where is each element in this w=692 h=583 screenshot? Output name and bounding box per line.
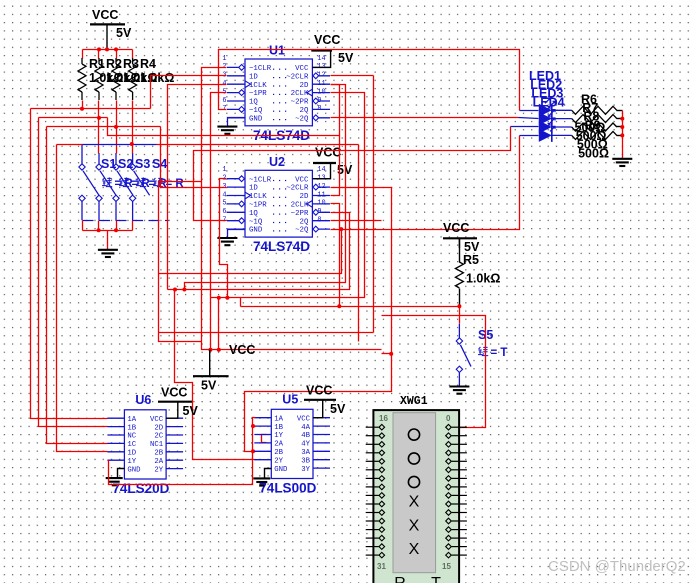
wire net D4 down to rail L1 <box>358 145 360 342</box>
junction <box>217 296 221 300</box>
svg-text:0: 0 <box>446 414 451 423</box>
power VCC symbol mid 5V (inverted) <box>193 343 255 393</box>
svg-text:1A: 1A <box>127 416 136 424</box>
wire <box>132 101 134 145</box>
wire net R down to VCC rail <box>202 342 382 350</box>
svg-text:5V: 5V <box>338 51 354 65</box>
svg-text:74LS74D: 74LS74D <box>253 239 310 254</box>
svg-text:R3: R3 <box>123 57 139 71</box>
switch S3 <box>113 153 133 220</box>
IC U2 pins and labels <box>227 178 245 180</box>
wire net D1 horizontal <box>31 108 151 110</box>
svg-text:~1CLR: ~1CLR <box>249 65 272 73</box>
wire U2 pin10 2CLK down to T rail <box>331 204 340 307</box>
svg-text:U1: U1 <box>269 44 285 58</box>
svg-text:5V: 5V <box>116 26 132 40</box>
svg-text:1D: 1D <box>249 73 258 81</box>
svg-text:1CLK: 1CLK <box>249 82 267 90</box>
svg-text:31: 31 <box>377 562 386 571</box>
svg-text:1Q: 1Q <box>249 210 258 218</box>
svg-text:3Y: 3Y <box>301 466 310 474</box>
svg-text:R1: R1 <box>89 57 105 71</box>
wire U1 pin1 ~1CLR net R <box>202 68 227 342</box>
svg-text:3A: 3A <box>301 449 310 457</box>
LED LED4 <box>539 123 572 142</box>
svg-text:~2Q: ~2Q <box>295 115 309 123</box>
wire net D3 horizontal <box>47 126 161 128</box>
svg-text:= R: = R <box>166 178 185 190</box>
wire down to U5 pin 2Y <box>175 290 256 460</box>
junction <box>173 288 177 292</box>
junction <box>182 288 186 292</box>
svg-text:11: 11 <box>317 80 325 88</box>
svg-text:1Y: 1Y <box>127 458 136 466</box>
svg-text:= T: = T <box>491 347 508 359</box>
wire net D2 jog right <box>108 118 340 136</box>
svg-text:~1CLR: ~1CLR <box>249 176 272 184</box>
svg-text:GND: GND <box>249 115 263 123</box>
svg-text:S3: S3 <box>135 157 150 171</box>
LED LED2 <box>539 107 572 126</box>
switch S5 <box>456 324 471 387</box>
svg-text:~2PR: ~2PR <box>291 210 309 218</box>
wire junction down to VCC rail <box>218 298 220 350</box>
wire U1 GND to ground <box>228 118 245 127</box>
resistor R8 500Ω <box>572 123 617 131</box>
svg-text:6: 6 <box>222 97 226 105</box>
wire <box>132 50 134 59</box>
svg-text:2C: 2C <box>154 433 163 441</box>
svg-text:R9: R9 <box>585 118 601 132</box>
wire LED3 anode blue <box>511 126 539 128</box>
svg-text:~2CLR: ~2CLR <box>286 185 309 193</box>
wire U1 pin12 2D to U2 pin11 2D <box>331 85 340 196</box>
wire <box>82 101 84 109</box>
wire long horizontal y332 <box>159 332 374 334</box>
wire rail y273 up to LED4 line <box>159 230 342 274</box>
svg-text:NC1: NC1 <box>150 441 164 449</box>
junction <box>114 228 118 232</box>
svg-text:GND: GND <box>127 466 141 474</box>
junction T rail <box>337 304 341 308</box>
wire net D3 to U6 pin 1C <box>47 127 108 444</box>
svg-text:X: X <box>409 541 420 558</box>
wire net D4 to U6 pin 1D <box>57 145 108 452</box>
junction <box>620 125 624 129</box>
svg-text:2CLK: 2CLK <box>291 202 309 210</box>
svg-text:1Y: 1Y <box>274 432 283 440</box>
svg-text:VCC: VCC <box>295 176 309 184</box>
svg-text:2B: 2B <box>154 450 163 458</box>
svg-text:2B: 2B <box>274 449 283 457</box>
junction R4/S4 <box>130 142 134 146</box>
power VCC symbol top-left 5V <box>90 8 132 49</box>
wire U1 ~1Q to LED1 <box>219 50 520 111</box>
svg-text:10: 10 <box>317 200 325 208</box>
svg-text:5V: 5V <box>201 379 217 393</box>
IC U5 pins and labels <box>254 417 271 419</box>
svg-text:9: 9 <box>317 208 321 216</box>
svg-text:2CLK: 2CLK <box>291 90 309 98</box>
wire U2 pin13 ~2CLR down to U5 pin 2B <box>245 188 392 452</box>
wire <box>617 126 623 128</box>
label S5 key = T <box>478 346 507 359</box>
junction <box>217 348 221 352</box>
ground U6 <box>106 478 123 485</box>
svg-text:2A: 2A <box>274 441 283 449</box>
svg-text:S4: S4 <box>152 157 167 171</box>
power VCC symbol R5 5V <box>443 221 480 254</box>
wire U5 1Y to 2A bracket <box>262 435 267 443</box>
svg-text:11: 11 <box>317 191 325 199</box>
wire T rail riser <box>240 298 242 307</box>
svg-text:15: 15 <box>442 562 451 571</box>
svg-text:R5: R5 <box>463 253 479 267</box>
svg-text:S1: S1 <box>101 157 116 171</box>
svg-text:R: R <box>394 575 406 583</box>
wire U2 GND to ground <box>228 230 245 239</box>
svg-text:~2CLR: ~2CLR <box>286 73 309 81</box>
wire U2 ~1Q to LED3 <box>194 127 511 221</box>
ground S5 <box>449 387 469 394</box>
junction <box>97 47 101 51</box>
wire resistor top bus <box>83 49 133 51</box>
svg-text:500Ω: 500Ω <box>578 146 609 160</box>
svg-text:R2: R2 <box>106 57 122 71</box>
resistor R2 1.0kΩ <box>95 64 103 92</box>
wire LED1 anode blue <box>520 110 539 112</box>
label S4 key = R <box>153 177 184 190</box>
IC U2 74LS74D body <box>245 170 312 237</box>
svg-text:VCC: VCC <box>150 416 164 424</box>
resistor R6 500Ω <box>572 106 617 114</box>
wire S3 feed <box>116 127 118 154</box>
junction <box>114 47 118 51</box>
switch S1 <box>79 144 99 220</box>
wire U1 pin11 2CLK down-around <box>185 85 346 290</box>
svg-text:5V: 5V <box>183 404 199 418</box>
svg-text:1A: 1A <box>274 415 283 423</box>
junction R2/S2 <box>97 116 101 120</box>
svg-text:5V: 5V <box>330 402 346 416</box>
instrument XWG1 pins <box>366 424 467 558</box>
IC U5 74LS00D body <box>271 409 313 478</box>
LED LED3 <box>539 115 572 134</box>
svg-text:4B: 4B <box>301 432 310 440</box>
svg-text:2Y: 2Y <box>274 457 283 465</box>
svg-text:12: 12 <box>317 183 325 191</box>
wire U1 pin4 ~1PR down to VCC rail <box>211 93 227 350</box>
junction <box>225 296 229 300</box>
wire rail jog join <box>382 353 392 355</box>
svg-text:X: X <box>409 494 420 511</box>
label S1 key = R <box>102 177 133 190</box>
svg-text:4: 4 <box>222 191 226 199</box>
wire rail to R5/S5 node T <box>241 306 460 308</box>
junction <box>97 228 101 232</box>
svg-text:8: 8 <box>317 217 321 225</box>
ground U2 <box>217 238 237 245</box>
svg-text:2Q: 2Q <box>300 107 309 115</box>
svg-text:U5: U5 <box>282 392 298 406</box>
svg-text:VCC: VCC <box>229 343 255 357</box>
power VCC symbol U1 5V <box>311 33 354 67</box>
svg-text:U6: U6 <box>135 393 151 407</box>
svg-text:NC: NC <box>127 433 136 441</box>
wire U5 1B <box>253 426 256 428</box>
junction node T <box>457 304 461 308</box>
svg-text:6: 6 <box>222 208 226 216</box>
svg-text:9: 9 <box>317 97 321 105</box>
wire <box>82 221 84 231</box>
svg-text:1D: 1D <box>249 185 258 193</box>
svg-text:74LS00D: 74LS00D <box>259 481 316 496</box>
resistor R3 1.0kΩ <box>112 64 120 92</box>
svg-text:LED4: LED4 <box>533 95 565 109</box>
wire net D4 horizontal left <box>57 144 83 146</box>
svg-text:VCC: VCC <box>161 386 187 400</box>
svg-text:GND: GND <box>249 227 263 235</box>
wire net D4 horizontal right <box>157 144 359 146</box>
svg-text:1Q: 1Q <box>249 99 258 107</box>
svg-text:10: 10 <box>317 88 325 96</box>
svg-text:2D: 2D <box>154 424 163 432</box>
junction <box>389 352 393 356</box>
wire <box>617 118 623 120</box>
power VCC symbol U6 5V <box>158 386 198 419</box>
wire U1 ~2Q to LED2 <box>331 117 519 119</box>
svg-text:1.0kΩ: 1.0kΩ <box>140 71 174 85</box>
junction R1/S1 <box>80 107 84 111</box>
wire <box>98 101 100 118</box>
svg-text:5V: 5V <box>464 240 480 254</box>
svg-text:~1Q: ~1Q <box>249 107 263 115</box>
wire LED2 anode blue <box>519 118 539 119</box>
svg-text:1CLK: 1CLK <box>249 193 267 201</box>
svg-text:~1Q: ~1Q <box>249 218 263 226</box>
svg-text:~2Q: ~2Q <box>295 227 309 235</box>
wire <box>116 101 118 127</box>
svg-text:1.0kΩ: 1.0kΩ <box>466 272 500 286</box>
svg-text:74LS20D: 74LS20D <box>112 481 169 496</box>
svg-text:VCC: VCC <box>443 221 469 235</box>
svg-text:XWG1: XWG1 <box>400 395 428 408</box>
resistor R7 500Ω <box>572 115 617 123</box>
wire <box>617 135 623 137</box>
wire clock rail to U2 ~2PR <box>168 213 350 290</box>
wire R5 lead <box>459 289 461 307</box>
IC U1 pins and labels <box>227 66 245 68</box>
resistor R4 1.0kΩ <box>129 64 137 92</box>
svg-text:4A: 4A <box>301 424 310 432</box>
wire U6 GND <box>118 469 125 479</box>
wire U1 pin13 ~2CLR right <box>331 75 374 77</box>
svg-text:1: 1 <box>222 55 226 63</box>
wire <box>116 50 118 59</box>
svg-text:1D: 1D <box>127 450 136 458</box>
ground U1 <box>217 127 237 134</box>
junction R3/S3 <box>114 125 118 129</box>
svg-text:14: 14 <box>317 55 325 63</box>
wire <box>617 110 623 112</box>
label S2 key = R <box>119 177 150 190</box>
wire U1 pin3 1CLK down <box>168 85 227 290</box>
wire <box>116 221 118 231</box>
junction U5 1B branch <box>251 424 255 428</box>
svg-text:~1PR: ~1PR <box>249 202 267 210</box>
svg-text:X: X <box>409 517 420 534</box>
junction <box>105 47 109 51</box>
junction VCC stem <box>208 348 212 352</box>
wire node T down <box>459 307 461 324</box>
svg-text:3B: 3B <box>301 457 310 465</box>
svg-text:VCC: VCC <box>314 33 340 47</box>
wire net D2 to U6 pin 1B <box>39 118 108 427</box>
power VCC symbol U2 5V <box>313 146 353 179</box>
ground R6-R9 <box>612 159 632 166</box>
wire <box>98 221 100 231</box>
wire long vertical x374 <box>373 76 375 333</box>
svg-text:1: 1 <box>222 166 226 174</box>
junction LED4 line <box>339 227 343 231</box>
wire <box>132 221 134 231</box>
svg-text:1B: 1B <box>127 424 136 432</box>
instrument XWG1 inner panel <box>393 413 436 573</box>
svg-text:14: 14 <box>317 166 325 174</box>
svg-text:~1PR: ~1PR <box>249 90 267 98</box>
svg-text:1B: 1B <box>274 424 283 432</box>
ground switches S1-S4 <box>98 250 118 257</box>
wire <box>108 460 109 462</box>
svg-text:12: 12 <box>317 72 325 80</box>
wire U2 pin8 2Q right <box>331 220 382 222</box>
wire S2 feed <box>98 118 100 154</box>
svg-text:VCC: VCC <box>306 384 332 398</box>
svg-text:S2: S2 <box>118 157 133 171</box>
IC U6 pins and labels <box>107 417 124 419</box>
svg-text:16: 16 <box>379 414 388 423</box>
junction <box>251 449 255 453</box>
svg-text:CSDN @ThunderQ2: CSDN @ThunderQ2 <box>548 558 686 575</box>
svg-text:~2PR: ~2PR <box>291 99 309 107</box>
junction <box>620 117 624 121</box>
wire preset rail up to U1 pin10 ~2PR <box>211 93 365 298</box>
svg-text:GND: GND <box>274 466 288 474</box>
svg-text:VCC: VCC <box>297 415 311 423</box>
svg-text:VCC: VCC <box>315 146 341 160</box>
svg-text:2D: 2D <box>300 193 309 201</box>
wire to ground <box>107 231 109 250</box>
IC U6 74LS20D body <box>124 410 166 479</box>
wire U2 pin1 ~1CLR down to preset rail <box>220 179 228 298</box>
svg-text:1C: 1C <box>127 441 136 449</box>
svg-text:2A: 2A <box>154 458 163 466</box>
svg-text:4Y: 4Y <box>301 441 310 449</box>
svg-text:VCC: VCC <box>92 8 118 22</box>
svg-text:8: 8 <box>317 105 321 113</box>
wire XWG pin0 branch <box>382 316 486 428</box>
power VCC symbol U5 5V <box>304 384 346 418</box>
wire net D1 to U6 pin 1A <box>31 109 108 419</box>
wire LED4 anode blue <box>520 135 539 137</box>
wire R5 top lead <box>459 239 461 263</box>
svg-text:2Q: 2Q <box>300 218 309 226</box>
resistor R1 1.0kΩ <box>78 64 86 92</box>
wire <box>98 50 100 59</box>
wire LED resistor common to ground <box>622 111 624 159</box>
svg-text:VCC: VCC <box>295 65 309 73</box>
wire U2 ~2Q to LED4 <box>331 136 520 230</box>
wire net D1 to U1 pin2 1D <box>151 76 227 109</box>
wire U6 1Y to U5 1A <box>109 418 256 485</box>
svg-text:2Y: 2Y <box>154 466 163 474</box>
ground U5 <box>253 478 270 485</box>
wire S4 feed <box>132 145 134 154</box>
switch S2 <box>96 153 116 220</box>
LED LED1 <box>539 98 572 117</box>
svg-text:R4: R4 <box>140 57 156 71</box>
wire switch bottom dashed rail <box>83 220 169 222</box>
svg-text:5: 5 <box>222 200 226 208</box>
wire switch top blue rail <box>83 144 157 146</box>
junction <box>620 133 624 137</box>
IC U1 74LS74D body <box>245 59 312 126</box>
wire U5 GND <box>265 469 272 479</box>
label S3 key = R <box>136 177 167 190</box>
svg-text:U2: U2 <box>269 155 285 169</box>
instrument XWG1 state symbols O O O X X X <box>408 429 419 558</box>
svg-text:2D: 2D <box>300 82 309 90</box>
resistor R9 500Ω <box>572 131 617 139</box>
wire net D2 horizontal <box>39 117 108 119</box>
svg-text:T: T <box>431 575 441 583</box>
wire switch ground bus <box>83 230 133 232</box>
wire net D3 to U2 pin2 1D <box>161 127 227 188</box>
instrument XWG1 word generator body <box>373 410 459 583</box>
resistor R5 1.0kΩ <box>455 262 463 288</box>
wire net R key loop <box>159 182 202 342</box>
wire <box>82 50 84 59</box>
switch S4 <box>129 153 149 220</box>
